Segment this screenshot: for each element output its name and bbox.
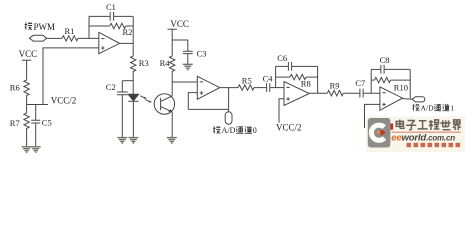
resistor R2 feedback bbox=[89, 23, 133, 28]
power VCC (left) bbox=[19, 49, 38, 80]
wire feedback left riser bbox=[88, 16, 90, 38]
wire U2 + input to feedback loop bbox=[188, 93, 197, 110]
svg-text:C7: C7 bbox=[355, 78, 365, 88]
resistor R10 feedback bbox=[371, 77, 410, 82]
wire U3 feedback right riser bbox=[317, 66, 319, 93]
wire R1 to U1 inverting input bbox=[78, 37, 99, 39]
resistor R6 bbox=[24, 80, 29, 95]
svg-text:A/D: A/D bbox=[222, 126, 236, 135]
capacitor C2 bbox=[117, 81, 128, 138]
svg-text:C6: C6 bbox=[277, 53, 287, 63]
capacitor C7 bbox=[360, 89, 380, 98]
svg-text:R8: R8 bbox=[301, 79, 311, 89]
svg-text:R7: R7 bbox=[10, 118, 20, 128]
svg-text:R10: R10 bbox=[394, 83, 408, 93]
wire R4 to phototransistor collector bbox=[171, 71, 173, 96]
svg-text:R6: R6 bbox=[10, 83, 20, 93]
node PWM input label 接PWM bbox=[25, 22, 55, 32]
svg-text:eeworld.com.cn: eeworld.com.cn bbox=[391, 132, 455, 143]
connector J1 (PWM) bbox=[30, 35, 47, 41]
capacitor C3 bbox=[183, 51, 193, 64]
logo icon C bbox=[371, 125, 384, 140]
wire collector node to U2 inverting input bbox=[172, 81, 197, 83]
wire U3 output bbox=[309, 92, 327, 94]
op-amp U1 bbox=[99, 32, 120, 53]
wire U2 feedback loop bottom bbox=[188, 108, 228, 110]
wire feedback right riser to U1 output bbox=[132, 16, 134, 43]
capacitor C1 feedback bbox=[89, 12, 133, 21]
svg-text:C1: C1 bbox=[106, 2, 116, 12]
ground (R7) bbox=[22, 147, 32, 152]
capacitor C6 feedback bbox=[276, 62, 318, 71]
wire C3 branch bbox=[172, 40, 188, 51]
capacitor C5 bbox=[31, 105, 40, 147]
wire R6 to divider node bbox=[26, 95, 28, 105]
resistor R5 bbox=[238, 85, 254, 90]
wire U4 + input down behind logo bbox=[365, 104, 380, 128]
svg-text:VCC: VCC bbox=[170, 19, 189, 29]
svg-text:C8: C8 bbox=[380, 55, 390, 65]
light arrows LED to phototransistor bbox=[140, 96, 152, 103]
logo url eeworld.com.cn bbox=[392, 131, 462, 134]
resistor R9 bbox=[327, 91, 343, 96]
svg-text:R2: R2 bbox=[123, 27, 133, 37]
wire U4 feedback right riser bbox=[409, 69, 411, 98]
wire U1 output bbox=[120, 42, 134, 44]
wire R9 to C7 bbox=[343, 92, 360, 94]
ground (C2) bbox=[117, 138, 127, 143]
logo title 电子工程世界 bbox=[396, 120, 461, 131]
svg-text:C3: C3 bbox=[197, 49, 207, 59]
resistor R7 bbox=[24, 105, 29, 147]
resistor R1 bbox=[62, 36, 78, 41]
capacitor C8 feedback bbox=[371, 65, 410, 74]
logo red slogan blocks bbox=[407, 143, 461, 147]
capacitor C4 bbox=[267, 83, 284, 92]
svg-text:R9: R9 bbox=[330, 81, 340, 91]
op-amp U3 bbox=[284, 82, 309, 106]
svg-text:R3: R3 bbox=[139, 58, 149, 68]
svg-text:R5: R5 bbox=[242, 76, 252, 86]
svg-text:C4: C4 bbox=[263, 74, 274, 84]
resistor R4 bbox=[170, 56, 175, 71]
svg-text:R1: R1 bbox=[65, 26, 75, 36]
logo icon center dot bbox=[377, 131, 381, 135]
ground (phototransistor emitter) bbox=[167, 138, 177, 143]
wire U3 feedback left riser bbox=[275, 66, 277, 87]
LED D1 bbox=[128, 94, 138, 137]
logo icon red wedge bbox=[381, 129, 386, 136]
svg-text:VCC/2: VCC/2 bbox=[276, 123, 302, 133]
power VCC (middle) bbox=[168, 19, 189, 56]
op-amp U4 bbox=[380, 87, 403, 110]
logo red mark bbox=[390, 124, 393, 130]
ground (LED) bbox=[128, 138, 138, 143]
resistor R3 bbox=[131, 43, 136, 94]
wire U4 output bbox=[403, 98, 413, 101]
ground (C3) bbox=[183, 64, 193, 69]
svg-text:VCC: VCC bbox=[19, 49, 38, 59]
resistor R8 feedback bbox=[276, 74, 318, 79]
svg-text:PWM: PWM bbox=[34, 22, 56, 32]
logo icon box bbox=[368, 118, 391, 148]
connector J3 (A/D channel 1) bbox=[412, 97, 425, 102]
label 接A/D通道0 bbox=[213, 126, 257, 135]
capacitor C2 branch wire bbox=[122, 80, 133, 82]
wire U1 + input to VCC/2 node bbox=[43, 48, 99, 105]
phototransistor Q1 bbox=[154, 94, 174, 137]
connector J2 (A/D channel 0) bbox=[225, 112, 232, 125]
wire U2 output bbox=[220, 87, 238, 89]
svg-text:C5: C5 bbox=[42, 117, 52, 127]
node VCC/2 wire bbox=[27, 104, 48, 106]
svg-text:0: 0 bbox=[253, 126, 257, 135]
wire J1 to R1 bbox=[47, 37, 62, 39]
svg-text:C2: C2 bbox=[106, 82, 116, 92]
svg-text:R4: R4 bbox=[160, 58, 171, 68]
op-amp U2 bbox=[197, 76, 220, 99]
label 接A/D通道1 bbox=[412, 104, 454, 113]
watermark logo background bbox=[366, 117, 465, 153]
wire U4 feedback left riser bbox=[370, 69, 372, 93]
wire U2 feedback right riser bbox=[228, 88, 230, 112]
wire R5 to C4 bbox=[254, 87, 267, 89]
ground (C5) bbox=[31, 147, 41, 152]
svg-text:A/D: A/D bbox=[421, 104, 435, 113]
svg-text:1: 1 bbox=[450, 104, 454, 113]
svg-text:VCC/2: VCC/2 bbox=[51, 96, 77, 106]
wire U3 + input to VCC/2 bbox=[279, 99, 284, 123]
